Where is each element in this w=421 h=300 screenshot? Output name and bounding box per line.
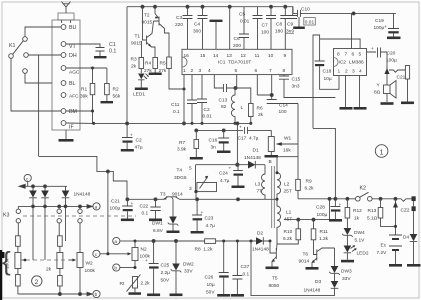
circled 1 bbox=[375, 145, 388, 158]
svg-text:D3: D3 bbox=[315, 279, 321, 285]
potentiometer W2 bbox=[69, 206, 96, 294]
switch K3 bbox=[3, 206, 136, 235]
wire IF to mid bus bbox=[66, 122, 95, 125]
svg-text:3: 3 bbox=[199, 68, 202, 74]
svg-text:0.1: 0.1 bbox=[142, 211, 149, 217]
svg-text:R8 1.2k: R8 1.2k bbox=[195, 247, 213, 253]
capacitor C3 bbox=[175, 7, 193, 50]
svg-text:IC2: IC2 bbox=[339, 60, 347, 66]
zener DW2 bbox=[170, 241, 194, 296]
svg-text:IF: IF bbox=[69, 124, 74, 130]
thermistor Rt bbox=[120, 275, 151, 295]
svg-text:47µ: 47µ bbox=[135, 145, 143, 151]
bias feed wire bbox=[284, 199, 330, 221]
svg-text:AGC: AGC bbox=[69, 70, 80, 76]
svg-text:6: 6 bbox=[255, 68, 258, 74]
svg-text:DW3: DW3 bbox=[341, 269, 352, 275]
wire IC2 pin6 to bus bbox=[351, 13, 353, 48]
svg-text:56k: 56k bbox=[113, 94, 121, 100]
zener DW4 bbox=[342, 228, 365, 246]
capacitor C15 bbox=[279, 75, 335, 98]
svg-text:C22: C22 bbox=[140, 204, 149, 210]
svg-text:27k: 27k bbox=[144, 68, 152, 74]
svg-text:R13: R13 bbox=[368, 208, 377, 214]
svg-text:R2: R2 bbox=[113, 87, 119, 93]
resistor R13 bbox=[367, 199, 396, 227]
staircase wire bbox=[39, 156, 127, 199]
svg-text:R5: R5 bbox=[160, 61, 166, 67]
mid bus bbox=[94, 122, 252, 125]
capacitor C20 bbox=[367, 47, 398, 64]
svg-text:25T: 25T bbox=[284, 189, 292, 195]
svg-text:2: 2 bbox=[191, 68, 194, 74]
svg-text:DW1: DW1 bbox=[152, 221, 163, 227]
svg-text:B: B bbox=[269, 159, 272, 165]
svg-text:2k: 2k bbox=[258, 112, 264, 118]
inductor L bbox=[231, 88, 243, 125]
capacitor C18 bbox=[315, 39, 340, 89]
svg-text:0.01: 0.01 bbox=[203, 114, 213, 120]
svg-text:3: 3 bbox=[189, 186, 192, 192]
switch K1 bbox=[9, 27, 61, 111]
svg-text:AFC: AFC bbox=[69, 93, 79, 99]
zener DW1 bbox=[152, 199, 180, 234]
svg-text:9015: 9015 bbox=[142, 20, 153, 26]
svg-text:100µ: 100µ bbox=[317, 212, 328, 218]
svg-text:C9: C9 bbox=[287, 22, 293, 28]
audio input routing wire bbox=[284, 35, 335, 199]
svg-text:9: 9 bbox=[284, 53, 287, 59]
capacitor C10 bbox=[293, 7, 315, 30]
svg-text:+: + bbox=[201, 211, 204, 216]
svg-text:C10: C10 bbox=[301, 7, 310, 13]
svg-text:0.1: 0.1 bbox=[243, 272, 250, 278]
svg-text:3.9k: 3.9k bbox=[177, 147, 187, 153]
resistor R11 bbox=[311, 220, 328, 255]
svg-text:K1: K1 bbox=[9, 43, 16, 49]
svg-text:DH: DH bbox=[69, 53, 77, 59]
svg-text:2k: 2k bbox=[46, 267, 52, 273]
svg-text:W1: W1 bbox=[284, 136, 292, 142]
svg-text:Ec: Ec bbox=[381, 243, 387, 249]
IC1 TDA7010T bbox=[182, 49, 292, 74]
resistor R1 bbox=[80, 68, 95, 123]
antenna plug box bbox=[58, 13, 74, 20]
svg-text:+: + bbox=[131, 202, 134, 207]
capacitor C19 bbox=[374, 13, 401, 39]
pot linkage dashes bbox=[26, 259, 75, 261]
speaker Y bbox=[374, 52, 396, 105]
svg-text:10: 10 bbox=[268, 53, 274, 59]
svg-text:8Ω: 8Ω bbox=[374, 90, 381, 96]
svg-text:C2: C2 bbox=[204, 107, 210, 113]
brace 100k bbox=[2, 246, 11, 276]
svg-text:C2: C2 bbox=[136, 138, 142, 144]
svg-text:4: 4 bbox=[208, 68, 211, 74]
svg-text:1: 1 bbox=[380, 149, 384, 156]
resistor R5 bbox=[159, 57, 186, 91]
terminal BL bbox=[61, 81, 75, 88]
svg-text:33V: 33V bbox=[342, 276, 351, 282]
svg-text:T1: T1 bbox=[135, 34, 141, 40]
svg-text:200: 200 bbox=[233, 43, 241, 49]
LED1 bbox=[133, 74, 149, 98]
diode Db bbox=[41, 186, 49, 260]
resistor R3 bbox=[131, 41, 144, 73]
svg-text:C8: C8 bbox=[276, 22, 282, 28]
svg-text:K3: K3 bbox=[3, 213, 10, 219]
svg-text:1N4148: 1N4148 bbox=[244, 155, 261, 161]
svg-text:D4: D4 bbox=[403, 235, 409, 241]
capacitor C2 47u bbox=[121, 123, 143, 151]
svg-text:100k: 100k bbox=[5, 258, 11, 269]
svg-text:C7: C7 bbox=[262, 23, 268, 29]
svg-text:C24: C24 bbox=[219, 171, 228, 177]
svg-text:1: 1 bbox=[183, 68, 186, 74]
svg-text:C23: C23 bbox=[205, 216, 214, 222]
resistor R10 bbox=[277, 220, 301, 244]
svg-text:14: 14 bbox=[213, 53, 219, 59]
svg-text:R9: R9 bbox=[306, 179, 312, 185]
svg-text:16k: 16k bbox=[283, 148, 291, 154]
svg-text:5.1Ω: 5.1Ω bbox=[367, 216, 378, 222]
svg-text:3n3: 3n3 bbox=[292, 84, 300, 90]
svg-text:5: 5 bbox=[235, 68, 238, 74]
wire AGC node bbox=[66, 67, 107, 70]
svg-text:2: 2 bbox=[345, 69, 348, 75]
wire DH to down-run bbox=[38, 55, 40, 156]
wire bus to D1 bbox=[236, 123, 239, 166]
svg-text:C21: C21 bbox=[397, 75, 406, 81]
svg-text:LED2: LED2 bbox=[357, 251, 369, 257]
node a2 bbox=[113, 237, 137, 244]
terminal DH bbox=[61, 53, 77, 60]
svg-text:K2: K2 bbox=[360, 186, 367, 192]
svg-text:0.01: 0.01 bbox=[240, 19, 250, 25]
svg-text:+: + bbox=[130, 134, 133, 139]
svg-text:7: 7 bbox=[345, 52, 348, 58]
svg-text:100: 100 bbox=[279, 109, 287, 115]
svg-text:3: 3 bbox=[352, 69, 355, 75]
terminal AFC bbox=[61, 93, 79, 100]
resistor R2 bbox=[101, 68, 121, 103]
svg-text:C6: C6 bbox=[234, 36, 240, 42]
IC2 top wire bbox=[320, 39, 361, 49]
svg-text:C17 4.7µ: C17 4.7µ bbox=[238, 136, 259, 142]
capacitor C5 bbox=[239, 7, 263, 50]
resistor stack 2 bbox=[46, 236, 63, 294]
transistor T1 bbox=[131, 7, 155, 58]
svg-text:+: + bbox=[384, 25, 387, 30]
svg-text:C14: C14 bbox=[279, 103, 288, 109]
transformer B core bbox=[269, 159, 275, 228]
pin13 wire bbox=[229, 7, 231, 50]
node b2 bbox=[113, 264, 137, 271]
svg-text:C18: C18 bbox=[323, 69, 332, 75]
svg-text:C28: C28 bbox=[316, 205, 325, 211]
capacitor C4 bbox=[193, 7, 208, 50]
winding L3 bbox=[255, 165, 265, 200]
svg-text:0.1: 0.1 bbox=[109, 49, 116, 55]
svg-text:W2: W2 bbox=[86, 261, 94, 267]
svg-text:1: 1 bbox=[338, 69, 341, 75]
svg-text:100k: 100k bbox=[85, 268, 96, 274]
svg-text:D1: D1 bbox=[253, 148, 259, 154]
svg-text:R12: R12 bbox=[353, 208, 362, 214]
svg-text:R11: R11 bbox=[320, 229, 329, 235]
zener DW3 bbox=[329, 248, 352, 282]
svg-text:4.7µ: 4.7µ bbox=[220, 178, 230, 184]
svg-text:b: b bbox=[95, 292, 98, 297]
diode D3 bbox=[304, 279, 339, 294]
diode D2 bbox=[252, 231, 272, 253]
svg-text:VT: VT bbox=[69, 44, 77, 50]
capacitor C21b bbox=[110, 199, 134, 222]
svg-text:R1: R1 bbox=[81, 87, 87, 93]
svg-text:BM: BM bbox=[69, 109, 77, 115]
svg-text:2k: 2k bbox=[131, 64, 137, 70]
svg-text:a: a bbox=[95, 205, 98, 210]
svg-text:T2: T2 bbox=[144, 13, 150, 19]
capacitor C7 bbox=[261, 7, 276, 50]
svg-text:100µ: 100µ bbox=[110, 206, 121, 212]
svg-text:10µ: 10µ bbox=[207, 282, 215, 288]
terminal BU bbox=[61, 25, 76, 32]
node c2 bbox=[93, 250, 132, 257]
svg-text:3DG6: 3DG6 bbox=[174, 175, 187, 181]
svg-text:R10: R10 bbox=[284, 229, 293, 235]
svg-text:b: b bbox=[114, 266, 117, 271]
svg-text:1N4148: 1N4148 bbox=[74, 192, 91, 198]
svg-text:LM386: LM386 bbox=[349, 60, 364, 66]
svg-text:5: 5 bbox=[359, 52, 362, 58]
svg-text:10µ: 10µ bbox=[324, 76, 332, 82]
svg-text:6.2k: 6.2k bbox=[283, 236, 293, 242]
svg-text:C3: C3 bbox=[176, 15, 182, 21]
svg-text:T4: T4 bbox=[177, 168, 183, 174]
node a out bbox=[93, 203, 100, 210]
svg-text:15: 15 bbox=[200, 53, 206, 59]
svg-text:R7: R7 bbox=[179, 140, 185, 146]
svg-text:C16: C16 bbox=[209, 138, 218, 144]
svg-text:7T: 7T bbox=[257, 189, 263, 195]
terminal VT bbox=[61, 42, 76, 50]
svg-text:6: 6 bbox=[352, 52, 355, 58]
capacitor C1 bbox=[66, 42, 117, 58]
potentiometer W1 bbox=[265, 130, 299, 157]
resistor R4 bbox=[144, 58, 162, 76]
svg-text:L1: L1 bbox=[286, 210, 292, 216]
svg-text:0.1: 0.1 bbox=[173, 109, 180, 115]
capacitor C12 bbox=[197, 75, 212, 125]
svg-text:50V: 50V bbox=[206, 290, 215, 296]
svg-text:6.2k: 6.2k bbox=[305, 186, 315, 192]
svg-text:4: 4 bbox=[359, 69, 362, 75]
battery bus and switch K2 bbox=[298, 186, 412, 202]
svg-text:0.01: 0.01 bbox=[305, 20, 315, 26]
svg-text:1N4148: 1N4148 bbox=[304, 288, 321, 294]
svg-text:L3: L3 bbox=[255, 182, 261, 188]
pin6 pin7 wires bbox=[257, 75, 273, 100]
wire to c row bbox=[107, 171, 109, 253]
svg-text:R4: R4 bbox=[145, 61, 151, 67]
svg-text:300: 300 bbox=[193, 29, 201, 35]
resistor R6 bbox=[235, 88, 264, 125]
connector CZ2 and diode D4 bbox=[401, 196, 421, 266]
svg-text:C19: C19 bbox=[375, 18, 384, 24]
svg-text:LED1: LED1 bbox=[133, 92, 145, 98]
bottom bus bbox=[18, 292, 93, 296]
svg-text:BL: BL bbox=[69, 81, 76, 87]
svg-text:100µ: 100µ bbox=[386, 58, 397, 64]
diode Da bbox=[29, 186, 37, 260]
svg-text:27k: 27k bbox=[159, 68, 167, 74]
svg-text:8: 8 bbox=[337, 52, 340, 58]
svg-text:100µ: 100µ bbox=[374, 25, 385, 31]
connector ground bbox=[59, 130, 74, 142]
svg-text:L2: L2 bbox=[284, 182, 290, 188]
svg-text:12: 12 bbox=[241, 53, 247, 59]
svg-text:1.2k: 1.2k bbox=[319, 236, 329, 242]
potentiometer N2 bbox=[132, 241, 151, 268]
pin14 ground bbox=[210, 20, 223, 50]
capacitor C22 bbox=[140, 199, 163, 221]
svg-text:a: a bbox=[114, 239, 117, 244]
svg-text:11: 11 bbox=[255, 53, 260, 59]
svg-text:100: 100 bbox=[261, 30, 269, 36]
VCC top bus bbox=[127, 5, 396, 15]
svg-text:DW2: DW2 bbox=[183, 262, 194, 268]
capacitor C24 bbox=[219, 165, 245, 188]
regulator row wire bbox=[126, 198, 277, 201]
svg-text:C5: C5 bbox=[239, 12, 245, 18]
IC2 ground pin2 bbox=[340, 76, 353, 110]
transistor T5 bbox=[266, 241, 280, 289]
svg-text:3n9: 3n9 bbox=[286, 29, 294, 35]
bus a row bbox=[135, 240, 205, 243]
svg-text:7: 7 bbox=[269, 68, 272, 74]
terminal BM bbox=[61, 109, 77, 116]
svg-text:C27: C27 bbox=[241, 264, 250, 270]
capacitor C9 bbox=[286, 7, 297, 35]
svg-text:16: 16 bbox=[184, 53, 190, 59]
battery Ec bbox=[377, 199, 403, 267]
wire BM row bbox=[66, 110, 94, 113]
svg-text:C25: C25 bbox=[161, 263, 170, 269]
svg-text:T6: T6 bbox=[303, 252, 309, 258]
svg-text:6.6V: 6.6V bbox=[153, 228, 164, 234]
svg-text:13: 13 bbox=[227, 53, 233, 59]
svg-text:2.2k: 2.2k bbox=[141, 281, 151, 287]
svg-text:5.1V: 5.1V bbox=[355, 238, 366, 244]
capacitor C13 bbox=[214, 75, 235, 110]
svg-text:+: + bbox=[339, 203, 342, 208]
svg-text:C13: C13 bbox=[219, 98, 228, 104]
svg-text:IC1 TDA7010T: IC1 TDA7010T bbox=[218, 60, 251, 66]
svg-text:C1: C1 bbox=[109, 42, 116, 48]
capacitor C21 bbox=[389, 66, 414, 105]
terminal IF bbox=[61, 121, 74, 131]
svg-text:8050: 8050 bbox=[269, 283, 280, 289]
capacitor C14 bbox=[267, 100, 298, 116]
return wire bottom bbox=[251, 241, 335, 296]
svg-text:Rt: Rt bbox=[120, 281, 125, 287]
svg-text:DW4: DW4 bbox=[354, 230, 365, 236]
svg-text:C21: C21 bbox=[111, 199, 120, 205]
capacitor C27 bbox=[231, 241, 250, 297]
capacitor C6 bbox=[233, 7, 249, 50]
svg-text:4.7µ: 4.7µ bbox=[206, 223, 216, 229]
diode feed line bbox=[19, 184, 67, 188]
diode D1 bbox=[237, 148, 265, 169]
diode Dc bbox=[62, 186, 91, 241]
terminal AGC bbox=[61, 66, 80, 76]
capacitor C23 bbox=[191, 199, 216, 233]
svg-text:2: 2 bbox=[35, 279, 39, 286]
svg-text:1N4148: 1N4148 bbox=[252, 247, 269, 253]
svg-text:R3: R3 bbox=[131, 57, 137, 63]
svg-text:R6: R6 bbox=[257, 106, 263, 112]
svg-text:C20: C20 bbox=[387, 51, 396, 57]
node b out bbox=[93, 290, 100, 297]
svg-text:T3: T3 bbox=[160, 192, 166, 198]
winding L1 bbox=[277, 199, 292, 244]
resistor R8 bbox=[195, 239, 257, 253]
svg-text:1k: 1k bbox=[354, 216, 360, 222]
IC2 ground pin4 bbox=[354, 76, 367, 110]
svg-text:3n: 3n bbox=[211, 145, 217, 151]
svg-text:C11: C11 bbox=[171, 102, 180, 108]
resistor R7 bbox=[177, 130, 203, 159]
svg-text:2.2µ: 2.2µ bbox=[161, 270, 171, 276]
svg-text:N2: N2 bbox=[141, 247, 147, 253]
svg-text:+: + bbox=[239, 126, 242, 131]
svg-text:C4: C4 bbox=[194, 22, 200, 28]
svg-text:L: L bbox=[241, 105, 244, 111]
connector block CZ1 bbox=[52, 20, 80, 130]
svg-text:7.2V: 7.2V bbox=[377, 250, 388, 256]
svg-text:5: 5 bbox=[189, 166, 192, 172]
capacitor C8 bbox=[275, 7, 290, 50]
svg-text:+: + bbox=[229, 167, 232, 172]
left edge dark mark bbox=[0, 250, 2, 300]
capacitor C16 bbox=[209, 130, 231, 153]
IC2 LM386 bbox=[334, 49, 367, 76]
svg-text:180: 180 bbox=[275, 29, 283, 35]
oscillator block T4 bbox=[174, 165, 237, 200]
svg-text:+: + bbox=[145, 259, 148, 264]
svg-text:33V: 33V bbox=[184, 269, 193, 275]
svg-text:220: 220 bbox=[175, 22, 183, 28]
svg-text:C15: C15 bbox=[292, 77, 301, 83]
pin1 wire bbox=[183, 75, 186, 125]
svg-text:82: 82 bbox=[221, 104, 227, 110]
wire C14 node down bbox=[297, 104, 299, 145]
resistor R12 bbox=[345, 199, 362, 228]
lower mid bus bbox=[195, 129, 243, 132]
transistor T6 bbox=[299, 248, 335, 270]
capacitor C28 bbox=[316, 199, 342, 222]
circled 2 bbox=[32, 276, 42, 286]
svg-text:BU: BU bbox=[69, 25, 77, 31]
capacitor C11 bbox=[171, 75, 197, 125]
svg-text:T5: T5 bbox=[272, 276, 278, 282]
svg-text:C26: C26 bbox=[205, 275, 214, 281]
winding L2 bbox=[276, 157, 292, 201]
wire L2 top to R9 bbox=[277, 156, 298, 158]
row to node a bbox=[18, 205, 92, 209]
svg-text:+: + bbox=[371, 47, 374, 52]
